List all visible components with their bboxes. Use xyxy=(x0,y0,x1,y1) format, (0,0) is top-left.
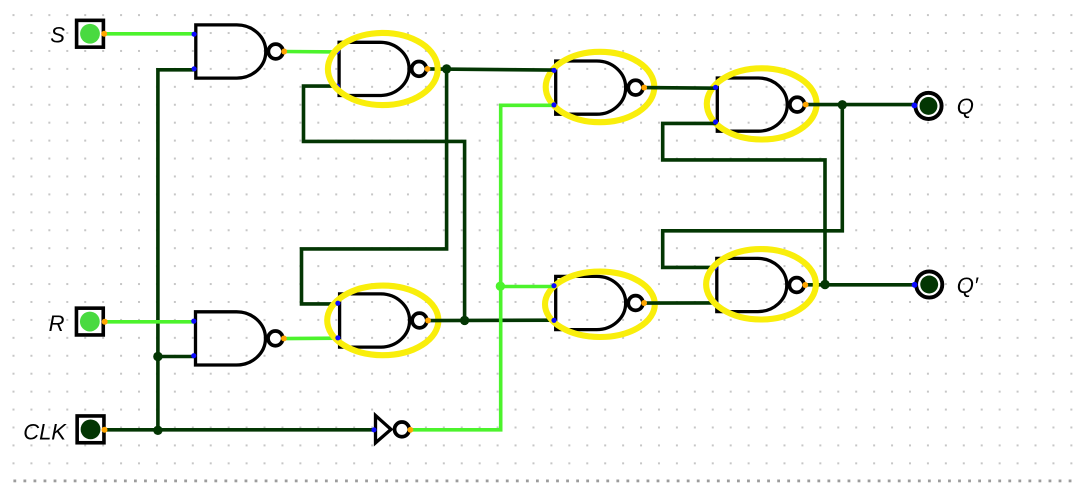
junction at U5 output node xyxy=(460,316,469,325)
nand U7 xyxy=(717,258,804,311)
junction CLK net at U8 branch xyxy=(153,352,162,361)
nand U1 terminal pins xyxy=(192,32,288,72)
svg-text:Q′: Q′ xyxy=(957,273,979,298)
input S xyxy=(77,20,108,47)
nand U3 terminal pins xyxy=(551,68,647,108)
wire U2 output feedback down to U5 upper input xyxy=(302,69,447,304)
svg-text:R: R xyxy=(49,311,65,336)
nand U2 xyxy=(339,42,426,95)
wire U7 output to Q' terminal xyxy=(805,283,914,287)
junction at U7 output node (Q' net) xyxy=(820,280,829,289)
wire U1 output to U2 upper input (high) xyxy=(284,50,338,54)
wire R input to U8 upper input (high) xyxy=(105,320,195,324)
wire U4 output to Q terminal xyxy=(806,103,915,107)
highlight ellipse around U6 xyxy=(545,272,655,337)
input CLK xyxy=(77,416,107,443)
nand U6 xyxy=(556,276,643,329)
wire net A: U4 output feedback down to U7 upper input xyxy=(663,105,843,268)
wire U3 output to U4 upper input xyxy=(644,86,717,90)
nand U7 terminal pins xyxy=(713,265,809,305)
nand U8 xyxy=(196,312,283,365)
wire CLK net: branch to NAND U8 lower input xyxy=(158,355,195,359)
highlight ellipse around U7 xyxy=(706,249,816,319)
nand U1 xyxy=(196,25,283,78)
nand U5 terminal pins xyxy=(335,301,431,341)
wire U8 output to U5 lower input (high) xyxy=(284,336,339,340)
nand U8 terminal pins xyxy=(191,319,287,359)
svg-text:CLK: CLK xyxy=(23,419,67,444)
output Q xyxy=(912,93,942,119)
wire S input to U1 upper input (high) xyxy=(104,32,194,36)
input R xyxy=(76,308,107,335)
output Q' xyxy=(912,271,943,297)
wire U5 output to U6 lower input xyxy=(428,318,554,322)
highlight ellipse around U5 xyxy=(327,286,438,356)
nand U3 xyxy=(556,61,643,114)
wire U2 output to U3 upper input xyxy=(428,69,555,70)
junction at U2 output node xyxy=(442,64,451,73)
highlight ellipse around U4 xyxy=(707,68,817,139)
not gate U9 (clock inverter) xyxy=(376,416,410,443)
nand U4 terminal pins xyxy=(713,85,809,125)
wire CLK net: CLK output to NOT gate input xyxy=(105,428,375,432)
not gate U9 terminal pins xyxy=(371,427,413,433)
junction at U4 output node (Q net) xyxy=(838,100,847,109)
wire U5 output feedback up to U2 lower input xyxy=(304,86,465,320)
nand U6 terminal pins xyxy=(551,283,647,323)
highlight ellipse around U2 xyxy=(328,33,438,105)
wire NOT gate output to U3 lower input and U6 upper input (high) xyxy=(410,105,555,430)
nand U2 terminal pins xyxy=(335,49,431,89)
wire U6 output to U7 lower input xyxy=(644,301,716,305)
wire net B: U7 output feedback up to U4 lower input xyxy=(663,123,825,284)
nand U5 xyxy=(340,294,427,347)
nand U4 xyxy=(717,78,804,131)
svg-text:Q: Q xyxy=(957,94,974,119)
highlight ellipse around U3 xyxy=(546,52,655,122)
junction on inverted clock net (high) xyxy=(496,282,505,291)
wire CLK net: vertical branch up to NAND U1 lower input xyxy=(158,70,195,431)
junction CLK net at CLK row xyxy=(153,426,162,435)
svg-text:S: S xyxy=(50,23,65,48)
